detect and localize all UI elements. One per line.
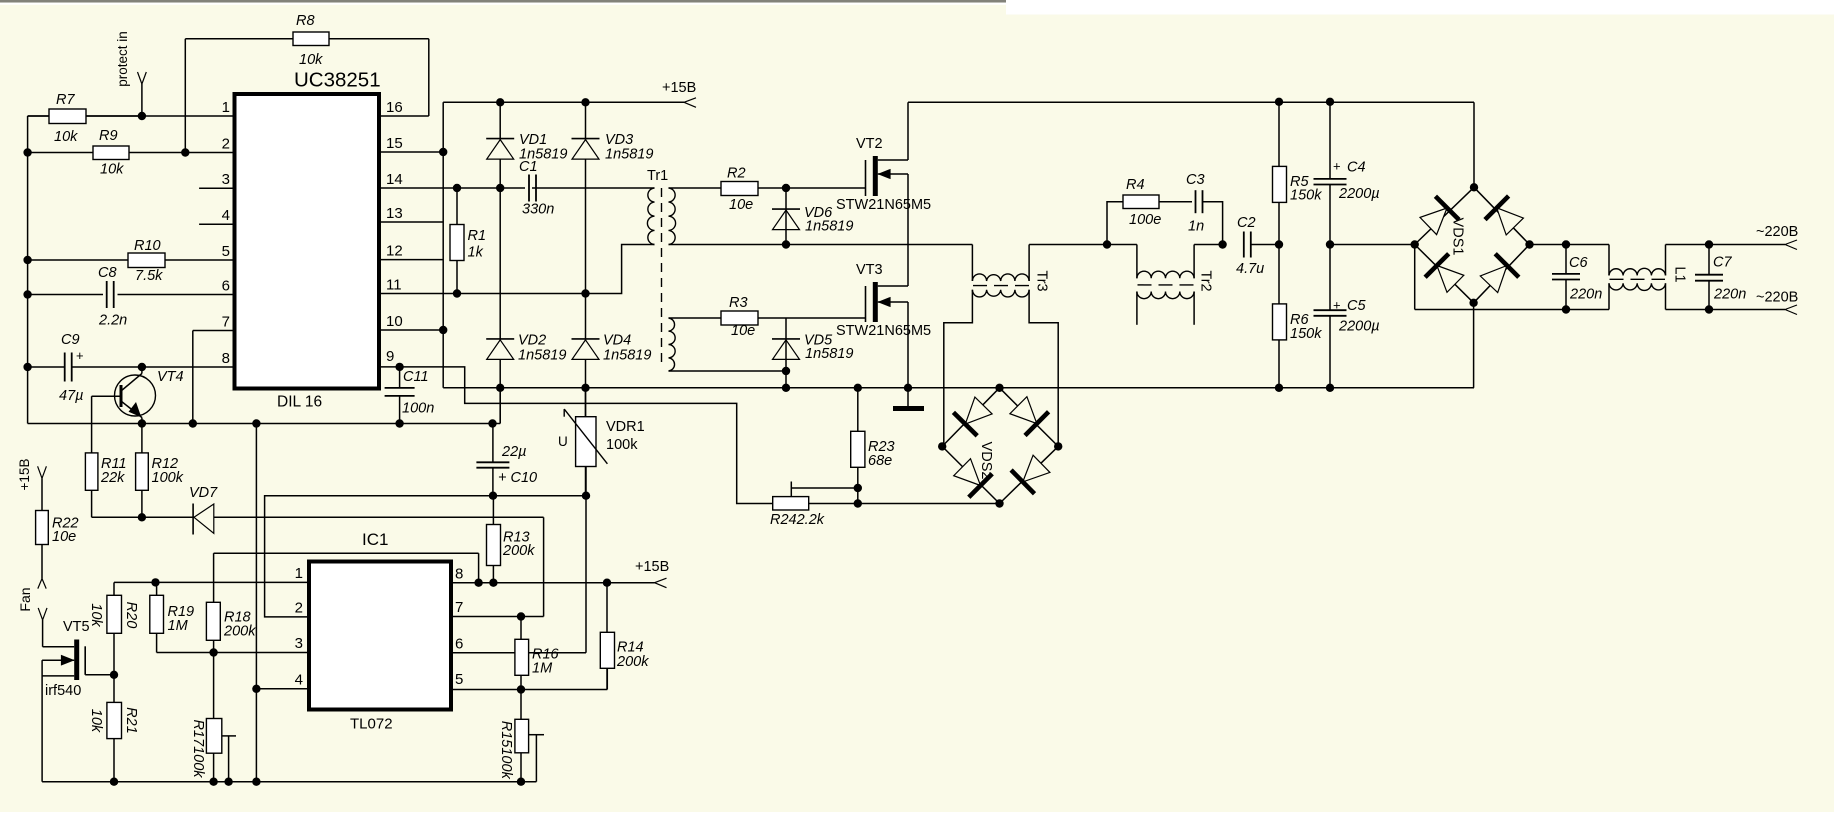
svg-text:150k: 150k (1290, 188, 1322, 204)
node rail IC1-gnd (252, 419, 260, 427)
transformer Tr3 upper winding (972, 274, 1029, 281)
node VD5 bottom (782, 367, 790, 375)
bridge VDS1 diode UL (1420, 208, 1447, 235)
svg-text:VDS1: VDS1 (1450, 218, 1466, 256)
capacitor C9 (64, 353, 66, 382)
node pin8 VT4 collector (138, 363, 146, 371)
svg-text:5: 5 (455, 671, 463, 688)
node mid R5 (1275, 240, 1283, 248)
node VDS1 bottom (1469, 299, 1477, 307)
svg-text:VT2: VT2 (856, 136, 883, 152)
wire VT stage to Tr3 (908, 244, 972, 246)
node pin4 gnd (252, 685, 260, 693)
svg-text:VDR1: VDR1 (606, 419, 645, 435)
svg-text:5: 5 (222, 243, 230, 260)
wire fan to VT5 drain (42, 620, 44, 647)
svg-text:12: 12 (386, 243, 403, 260)
svg-text:VD2: VD2 (518, 333, 546, 349)
svg-text:2200µ: 2200µ (1338, 186, 1380, 202)
node C3-C2 (1218, 240, 1226, 248)
transformer Tr2 upper winding (1137, 271, 1194, 278)
wire pin12 line (379, 259, 443, 261)
svg-text:C8: C8 (98, 265, 117, 281)
capacitor C5 (1314, 309, 1347, 311)
node toprail C4 (1326, 98, 1334, 106)
node Tr3-R4 (1103, 240, 1111, 248)
svg-text:C7: C7 (1713, 255, 1732, 271)
wire Tr2 left (1107, 244, 1137, 246)
svg-text:47µ: 47µ (59, 388, 83, 404)
svg-text:100e: 100e (1129, 212, 1161, 228)
svg-text:10k: 10k (100, 162, 124, 178)
node pin5-R15 (517, 685, 525, 693)
terminal +15B arrow (38, 466, 42, 478)
resistor R22 (36, 511, 49, 545)
node rail VT4 (138, 419, 146, 427)
svg-text:22k: 22k (100, 470, 125, 486)
svg-text:1n5819: 1n5819 (805, 219, 853, 235)
transformer Tr2 lower winding (1137, 292, 1194, 299)
svg-text:13: 13 (386, 205, 403, 222)
inductor L1 lower winding (1608, 283, 1610, 309)
resistor R12 (136, 453, 149, 490)
node rail R17a (209, 778, 217, 786)
svg-text:1k: 1k (468, 245, 484, 261)
wire mid line to VDS1 (1330, 244, 1415, 246)
node rail C10 (488, 419, 496, 427)
svg-text:C2: C2 (1237, 215, 1256, 231)
svg-text:6: 6 (222, 278, 230, 295)
svg-text:68e: 68e (868, 453, 892, 469)
node pin7-R16 (517, 612, 525, 620)
svg-text:IC1: IC1 (362, 530, 388, 549)
wire Tr1 sec top to R2 (669, 187, 722, 189)
transformer Tr1 primary (647, 188, 654, 245)
svg-text:C3: C3 (1186, 172, 1205, 188)
wire VDS1 bottom to bus (1473, 303, 1475, 388)
node R24 out (854, 499, 862, 507)
wire pin16 line (379, 115, 429, 117)
transistor VT5 source wire (42, 675, 74, 677)
svg-text:10k: 10k (299, 52, 323, 68)
svg-text:11: 11 (386, 277, 402, 294)
terminal Fan upper arrow (38, 579, 42, 589)
resistor R9 (93, 146, 129, 160)
node VD7-R12 (138, 513, 146, 521)
transistor VT3 channel (873, 282, 878, 322)
wire pin14 line (379, 187, 525, 189)
node pin14-VD1 (496, 184, 504, 192)
svg-text:VD3: VD3 (605, 132, 633, 148)
node VDS1 left (1411, 240, 1419, 248)
transistor VT3 gate (865, 286, 867, 322)
svg-text:~220B: ~220B (1756, 290, 1798, 306)
wire VD1-VD2 vertical (499, 102, 501, 423)
node pin8 left (23, 363, 31, 371)
transformer Tr3 core (973, 285, 1029, 287)
node C7 bottom (1705, 305, 1713, 313)
node rail R17b (224, 778, 232, 786)
node top rail VD3 (581, 98, 589, 106)
node bus VD2 (496, 384, 504, 392)
wire +310 top rail (908, 101, 1474, 103)
svg-text:10k: 10k (88, 709, 104, 733)
svg-text:10: 10 (386, 313, 403, 330)
node top rail VD1 (496, 98, 504, 106)
svg-text:15: 15 (386, 135, 403, 152)
svg-text:R10: R10 (134, 238, 161, 254)
svg-text:~220B: ~220B (1756, 224, 1798, 240)
svg-text:200k: 200k (502, 543, 535, 559)
svg-text:R7: R7 (56, 92, 75, 108)
wire Tr1 sec bot bottom line (669, 370, 787, 372)
svg-text:protect in: protect in (115, 31, 130, 87)
svg-text:1M: 1M (168, 618, 189, 634)
bottom white band (0, 812, 1834, 825)
node toprail R5 (1275, 98, 1283, 106)
bridge VDS1 diode UR (1497, 208, 1524, 235)
svg-text:+: + (1333, 159, 1341, 174)
svg-text:1M: 1M (532, 661, 553, 677)
transistor VT4 base bar (120, 385, 123, 407)
transistor VT5 gate (84, 646, 86, 675)
svg-text:8: 8 (222, 350, 230, 367)
svg-text:4.7u: 4.7u (1236, 261, 1264, 277)
node pin1-protect junction (138, 112, 146, 120)
node VDS1 right (1525, 240, 1533, 248)
svg-text:VD7: VD7 (189, 485, 218, 501)
svg-text:100k: 100k (152, 470, 184, 486)
wire emitter rail (28, 423, 493, 425)
svg-text:STW21N65M5: STW21N65M5 (836, 197, 931, 213)
wire pin6 line (28, 294, 103, 296)
node pin2 left (23, 148, 31, 156)
svg-text:100k: 100k (606, 437, 638, 453)
svg-text:irf540: irf540 (45, 683, 81, 699)
node rail ic1gnd (252, 778, 260, 786)
bridge VDS2 diode LL (954, 459, 981, 486)
svg-text:200k: 200k (223, 624, 256, 640)
wire VD3-VD4 vertical (585, 102, 587, 416)
node pin15 (439, 148, 447, 156)
wire Tr3 lower right to VDS2 (1029, 290, 1058, 447)
svg-text:VT3: VT3 (856, 262, 883, 278)
resistor R2 (721, 182, 758, 196)
resistor R8 (293, 32, 329, 46)
svg-text:C5: C5 (1347, 298, 1366, 314)
svg-text:150k: 150k (1290, 326, 1322, 342)
transistor VT2 drain (878, 159, 908, 161)
diode VD5 (772, 338, 800, 340)
svg-text:10e: 10e (731, 323, 755, 339)
svg-text:9: 9 (386, 348, 394, 365)
transformer Tr1 core (661, 188, 663, 368)
resistor R24 trimmer (773, 497, 809, 510)
svg-text:C1: C1 (519, 159, 538, 175)
node VDS2 top (995, 384, 1003, 392)
wire VD7 line (92, 516, 544, 518)
terminal Fan lower arrow (38, 608, 42, 620)
wire bottom ground rail (42, 781, 536, 783)
svg-text:4: 4 (295, 672, 303, 689)
wire L1 bottom out (1666, 309, 1786, 311)
bridge VDS1 outline (1415, 187, 1474, 244)
svg-text:200k: 200k (616, 654, 649, 670)
svg-text:Tr2: Tr2 (1198, 270, 1214, 291)
wire Tr2 secondary stub right (1193, 292, 1195, 325)
node pin5 left (23, 256, 31, 264)
node C6 bottom (1562, 305, 1570, 313)
node rail C11 (395, 419, 403, 427)
resistor R20 (107, 595, 122, 633)
transistor VT2 channel (873, 156, 878, 196)
wire pin2 line (28, 152, 93, 154)
ground symbol (907, 388, 909, 407)
svg-text:R15100k: R15100k (498, 721, 514, 780)
wire Tr1 sec top bottom line (669, 244, 909, 246)
wire pin1 line (28, 115, 235, 117)
wire Tr3 upper right (1028, 245, 1030, 282)
svg-text:3: 3 (295, 635, 303, 652)
node R19 top (151, 578, 159, 586)
svg-text:220n: 220n (1713, 287, 1746, 303)
node VD6 bottom (782, 240, 790, 248)
svg-text:3: 3 (222, 171, 230, 188)
resistor R7 (49, 109, 86, 124)
node VT5 gate node (110, 671, 118, 679)
transistor VT2 source (878, 173, 908, 175)
svg-text:R8: R8 (296, 13, 315, 29)
svg-text:+: + (76, 348, 84, 363)
node VDS2 right (1054, 442, 1062, 450)
varistor VDR1 (576, 417, 596, 467)
wire pin4 stub (199, 223, 234, 225)
top-right white band (1006, 0, 1834, 15)
transistor VT2 gate (865, 160, 867, 196)
inductor L1 core (1610, 278, 1666, 280)
resistor R11 (85, 453, 98, 490)
transistor VT4 base wire (92, 395, 121, 397)
svg-text:R1: R1 (468, 228, 487, 244)
node C7 top (1705, 240, 1713, 248)
resistor R15 trimmer (515, 719, 529, 753)
wire pin10 line (379, 329, 443, 331)
wire IC1 pin2 net (265, 496, 586, 617)
node mid C4 (1326, 240, 1334, 248)
node pin8-R14 (603, 579, 611, 587)
terminal +15B top arrow (684, 98, 696, 103)
resistor R3 (721, 311, 758, 325)
wire Tr3 lower left to VDS2 (944, 290, 973, 447)
svg-text:8: 8 (455, 566, 463, 583)
resistor R19 (150, 595, 164, 633)
node pin14-R1 (453, 184, 461, 192)
transistor VT5 channel bar (74, 640, 79, 681)
terminal ~220B top arrow (1785, 240, 1797, 245)
transformer Tr1 secondary top (669, 188, 676, 245)
capacitor C1 (528, 175, 530, 202)
svg-text:330n: 330n (522, 202, 554, 218)
node rail R21 (110, 778, 118, 786)
wire ground bus (443, 387, 1474, 389)
svg-text:VD4: VD4 (603, 333, 631, 349)
resistor R1 (450, 225, 464, 261)
svg-text:7: 7 (455, 599, 463, 616)
node bus R23 (854, 384, 862, 392)
node VD6 top (782, 184, 790, 192)
svg-text:R9: R9 (99, 128, 118, 144)
resistor R14 (600, 632, 614, 668)
svg-text:100n: 100n (402, 401, 434, 417)
wire VDS1 left down (1414, 245, 1416, 310)
diode VD6 (772, 208, 800, 210)
transformer Tr3 lower winding (972, 290, 1029, 297)
transistor VT5 body wire (42, 659, 74, 661)
svg-text:16: 16 (386, 99, 403, 116)
node VDS2 bottom (995, 499, 1003, 507)
resistor R21 (107, 702, 122, 738)
wire pin13 line (379, 221, 443, 223)
capacitor C7 (1695, 274, 1723, 276)
wire rail to VD2 jog (493, 423, 501, 425)
svg-text:R4: R4 (1126, 177, 1145, 193)
node C6 top (1562, 240, 1570, 248)
svg-text:+15B: +15B (662, 80, 696, 96)
wire Tr2 secondary stub left (1136, 292, 1138, 325)
resistor R4 (1123, 195, 1159, 209)
svg-text:10e: 10e (729, 197, 753, 213)
resistor R16 (515, 639, 529, 675)
svg-text:VT5: VT5 (63, 619, 90, 635)
terminal ~220B bottom arrow (1785, 305, 1797, 310)
svg-text:2200µ: 2200µ (1338, 319, 1380, 335)
svg-text:1n5819: 1n5819 (518, 347, 566, 363)
resistor R10 (128, 253, 165, 268)
wire pin8 line (28, 366, 65, 368)
svg-text:STW21N65M5: STW21N65M5 (836, 323, 931, 339)
svg-text:14: 14 (386, 171, 403, 188)
svg-text:R3: R3 (729, 295, 748, 311)
node R23-R24 wiper (854, 484, 862, 492)
capacitor C6 (1552, 273, 1580, 275)
wire pin5 line (28, 259, 128, 261)
terminal +15B mid arrow (655, 578, 667, 583)
wire pin7 line (193, 330, 235, 332)
svg-text:2.2n: 2.2n (98, 313, 127, 329)
capacitor C11 (385, 387, 415, 389)
svg-text:4: 4 (222, 207, 230, 224)
diode VD2 (486, 338, 514, 340)
node bus gnd (904, 384, 912, 392)
svg-text:+: + (1333, 298, 1341, 313)
svg-text:10k: 10k (88, 603, 104, 627)
wire VDS1 right out (1530, 244, 1610, 246)
bridge VDS2 outline (942, 388, 999, 447)
resistor R23 (851, 431, 865, 467)
wire left column vertical (27, 116, 29, 424)
transistor VT3 source (878, 301, 908, 303)
wire Tr2 right (1193, 245, 1195, 279)
resistor R5 (1273, 166, 1287, 202)
capacitor C10 (476, 461, 509, 463)
node pin2-R8 (181, 148, 189, 156)
svg-text:R242.2k: R242.2k (770, 512, 825, 528)
svg-text:1n5819: 1n5819 (605, 147, 653, 163)
resistor R13 (487, 525, 501, 566)
diode VD1 (486, 138, 514, 140)
svg-text:220n: 220n (1569, 287, 1602, 303)
svg-text:U: U (558, 434, 568, 449)
svg-text:6: 6 (455, 636, 463, 653)
wire IC1 pin6 line (451, 652, 586, 654)
wire R22 to fan (41, 545, 43, 579)
svg-text:7.5k: 7.5k (135, 268, 163, 284)
svg-text:1: 1 (295, 565, 303, 582)
svg-text:Tr3: Tr3 (1034, 270, 1050, 291)
svg-text:UC38251: UC38251 (294, 69, 381, 92)
capacitor C4 (1314, 178, 1347, 180)
node pin9-C11 (395, 363, 403, 371)
svg-text:10e: 10e (52, 529, 76, 545)
node bus VD4 (581, 384, 589, 392)
node rail R15 (517, 778, 525, 786)
wire pin11 line (379, 245, 655, 294)
bridge VDS1 diode LL (1437, 266, 1464, 293)
wire IC1 pin8 line (451, 582, 655, 584)
svg-text:C4: C4 (1347, 160, 1366, 176)
svg-text:1n5819: 1n5819 (805, 346, 853, 362)
wire IC1 pin4 line (256, 688, 309, 690)
bridge VDS2 diode UL (965, 397, 992, 424)
wire pin9 line (379, 367, 773, 504)
svg-text:C6: C6 (1569, 255, 1588, 271)
wire R24 to VDS2 bottom (809, 503, 1000, 505)
svg-text:VDS2: VDS2 (978, 442, 994, 480)
transformer Tr2 core (1138, 284, 1194, 286)
resistor R18 (206, 602, 220, 640)
wire pin3 stub (199, 187, 234, 189)
svg-text:R17100k: R17100k (190, 719, 206, 778)
node VDR1 bottom (582, 492, 590, 500)
node bus VD5 (782, 384, 790, 392)
transistor VT4 circle (115, 375, 156, 416)
bridge VDS2 diode UR (1010, 397, 1037, 424)
diode VD4 (572, 338, 600, 340)
node VDS2 left (938, 442, 946, 450)
svg-text:VD1: VD1 (519, 132, 547, 148)
node bus C5 (1326, 384, 1334, 392)
svg-text:+15B: +15B (635, 559, 669, 575)
node pin8-R13 (489, 579, 497, 587)
node pin10 (439, 326, 447, 334)
svg-text:1: 1 (222, 99, 230, 116)
inductor L1 upper winding (1608, 245, 1610, 276)
node pin11-VD3 (581, 289, 589, 297)
svg-text:7: 7 (222, 314, 230, 331)
svg-text:10k: 10k (54, 129, 78, 145)
svg-text:2: 2 (222, 136, 230, 153)
wire pin1 net (114, 581, 309, 583)
svg-text:C9: C9 (61, 332, 80, 348)
resistor R6 (1273, 304, 1287, 340)
svg-text:L1: L1 (1672, 266, 1688, 282)
svg-text:VT4: VT4 (157, 369, 184, 385)
svg-text:R20: R20 (123, 602, 139, 629)
svg-text:22µ: 22µ (501, 444, 526, 460)
wire +15 rail A (443, 101, 684, 103)
wire Tr1 sec bot to R3 (669, 317, 722, 319)
diode VD7 (192, 504, 194, 535)
